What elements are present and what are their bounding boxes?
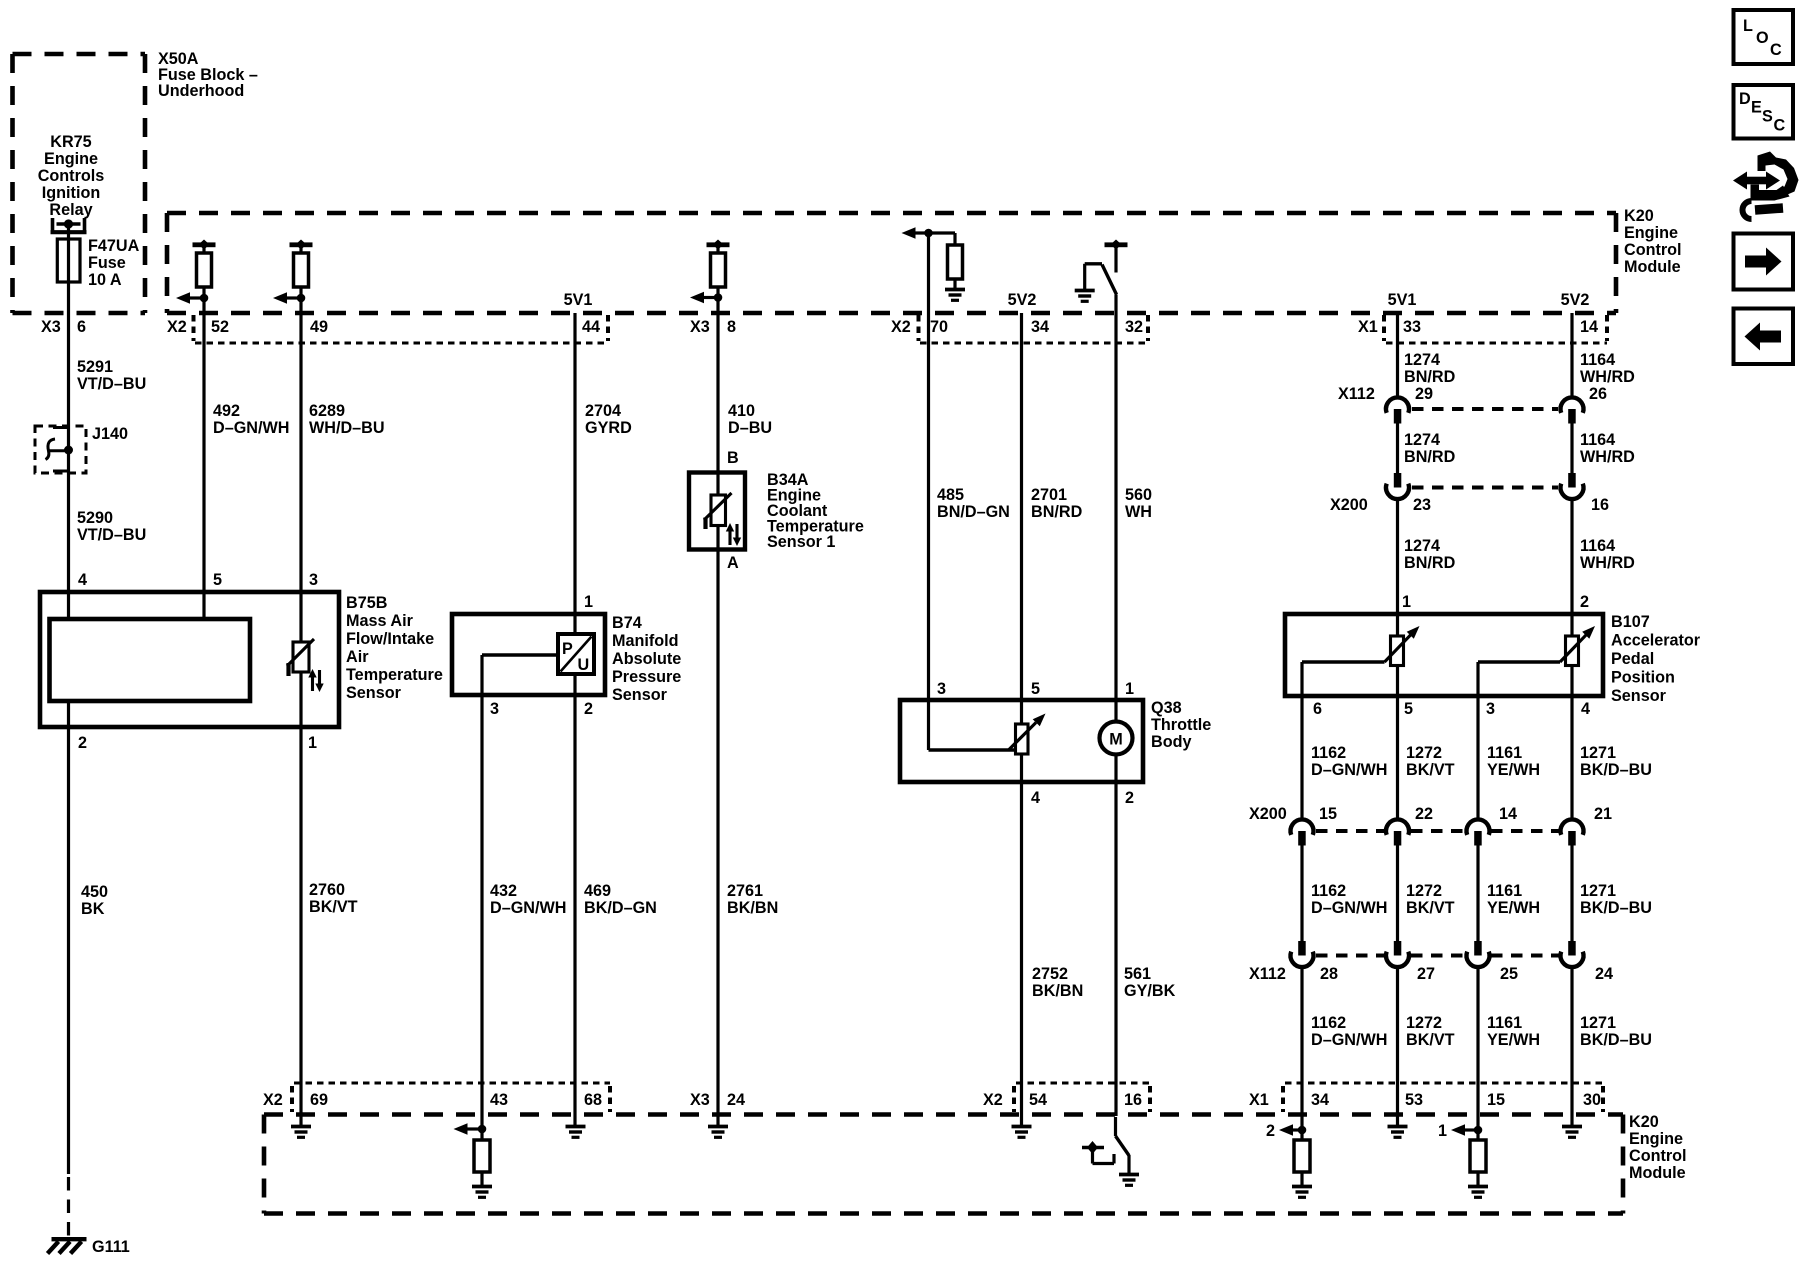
svg-text:Flow/Intake: Flow/Intake <box>346 630 434 648</box>
sensor B34A box <box>689 473 745 550</box>
svg-text:68: 68 <box>584 1091 602 1109</box>
svg-text:21: 21 <box>1594 805 1612 823</box>
svg-text:B74: B74 <box>612 614 642 632</box>
svg-text:Engine: Engine <box>44 150 98 168</box>
B107 potentiometer 1 <box>1391 636 1404 666</box>
svg-text:1162: 1162 <box>1311 744 1346 762</box>
label X50A Fuse Block Underhood <box>158 50 258 100</box>
svg-text:469: 469 <box>584 882 611 900</box>
svg-text:5290: 5290 <box>77 509 113 527</box>
svg-text:Sensor: Sensor <box>346 684 402 702</box>
svg-text:1: 1 <box>308 734 317 752</box>
label K20 Engine Control Module bottom <box>1629 1113 1687 1182</box>
svg-text:33: 33 <box>1403 318 1421 336</box>
svg-text:70: 70 <box>930 318 948 336</box>
icon LOC box <box>1734 10 1794 64</box>
label B107 Accelerator Pedal Position Sensor <box>1611 613 1701 705</box>
svg-text:6: 6 <box>77 318 86 336</box>
svg-text:1: 1 <box>1402 593 1411 611</box>
svg-text:1161: 1161 <box>1487 744 1522 762</box>
ECM pulldown at pin 70: arrow, resistor, ground <box>902 227 966 300</box>
svg-text:Absolute: Absolute <box>612 650 681 668</box>
svg-text:D–GN/WH: D–GN/WH <box>1311 761 1387 779</box>
svg-text:Position: Position <box>1611 669 1675 687</box>
svg-text:F47UA: F47UA <box>88 237 140 255</box>
B75B inner element box <box>50 619 251 701</box>
svg-text:Pedal: Pedal <box>1611 650 1654 668</box>
svg-text:1272: 1272 <box>1406 882 1442 900</box>
svg-text:BK/VT: BK/VT <box>1406 1031 1455 1049</box>
svg-text:53: 53 <box>1405 1091 1423 1109</box>
svg-text:2760: 2760 <box>309 881 345 899</box>
svg-text:5V2: 5V2 <box>1008 291 1037 309</box>
svg-text:YE/WH: YE/WH <box>1487 761 1540 779</box>
svg-text:Underhood: Underhood <box>158 82 244 100</box>
wire 1162 D-GN/WH (B107 pin 6 to pin 34) <box>1302 662 1385 1140</box>
svg-text:B107: B107 <box>1611 613 1650 631</box>
svg-text:2: 2 <box>1125 789 1134 807</box>
ECM switch at pin 32 with B+ marker <box>1075 240 1128 302</box>
connector strip X2 bottom-left (pins 69 43 68) <box>292 1083 610 1112</box>
svg-text:4: 4 <box>78 571 87 589</box>
sensor B74 box <box>452 614 605 695</box>
svg-text:D–GN/WH: D–GN/WH <box>490 899 566 917</box>
label Q38 Throttle Body <box>1151 699 1211 751</box>
svg-text:2: 2 <box>1580 593 1589 611</box>
svg-text:BN/RD: BN/RD <box>1031 503 1083 521</box>
svg-text:X200: X200 <box>1249 805 1287 823</box>
svg-text:BK/VT: BK/VT <box>1406 899 1455 917</box>
wire 2701 BN/RD (pin 34 to Q38 pin 5) <box>1020 313 1023 724</box>
svg-text:3: 3 <box>937 680 946 698</box>
svg-text:BK: BK <box>81 900 105 918</box>
wire 1164 WH/RD (pin 14 to B107 pin 2) <box>1570 313 1573 636</box>
svg-text:Engine: Engine <box>1629 1130 1683 1148</box>
svg-text:GY/BK: GY/BK <box>1124 982 1176 1000</box>
svg-text:BK/D–BU: BK/D–BU <box>1580 1031 1652 1049</box>
svg-text:34: 34 <box>1031 318 1049 336</box>
svg-text:Sensor 1: Sensor 1 <box>767 533 835 551</box>
svg-text:561: 561 <box>1124 965 1151 983</box>
svg-text:5291: 5291 <box>77 358 113 376</box>
svg-text:K20: K20 <box>1624 207 1654 225</box>
svg-text:49: 49 <box>310 318 328 336</box>
svg-text:D–GN/WH: D–GN/WH <box>213 419 289 437</box>
svg-text:E: E <box>1751 99 1762 117</box>
svg-text:3: 3 <box>1486 700 1495 718</box>
svg-text:Module: Module <box>1629 1164 1686 1182</box>
wire 6289 WH/D-BU (pin 49 to B75B pin 3) <box>299 313 302 642</box>
wire B74 pin 3 internal <box>482 653 558 657</box>
wire 432 D-GN/WH (B74 pin 3 to pin 43) <box>480 655 483 1140</box>
svg-text:C: C <box>1774 117 1786 135</box>
svg-text:1162: 1162 <box>1311 882 1346 900</box>
connector strip X1 bottom-right (pins 34 53 15 30) <box>1283 1083 1603 1112</box>
ECM switch at pin 16 with B+ contact <box>1082 1117 1139 1185</box>
svg-text:410: 410 <box>728 402 755 420</box>
svg-text:22: 22 <box>1415 805 1433 823</box>
svg-text:BK/D–GN: BK/D–GN <box>584 899 657 917</box>
B34A thermistor <box>704 493 737 545</box>
svg-text:1271: 1271 <box>1580 744 1616 762</box>
sensor B75B box <box>40 592 339 727</box>
svg-text:D–GN/WH: D–GN/WH <box>1311 899 1387 917</box>
ECM ground at pin 34: digit 2 arrow, resistor, ground <box>1266 1122 1312 1197</box>
svg-text:YE/WH: YE/WH <box>1487 1031 1540 1049</box>
inline connector X112 row pins 28/27/25/24 <box>1291 941 1584 967</box>
svg-text:X3: X3 <box>41 318 61 336</box>
svg-text:14: 14 <box>1580 318 1598 336</box>
svg-text:A: A <box>727 554 739 572</box>
svg-text:1272: 1272 <box>1406 1014 1442 1032</box>
svg-text:8: 8 <box>727 318 736 336</box>
svg-text:J140: J140 <box>92 425 128 443</box>
wire 469 BK/D-GN (B74 pin 2 to pin 68) <box>573 674 576 1127</box>
svg-text:B75B: B75B <box>346 594 387 612</box>
svg-text:Control: Control <box>1624 241 1682 259</box>
svg-text:32: 32 <box>1125 318 1143 336</box>
ECM pullup at pin 52: B+ marker, resistor R, arrow <box>176 240 216 314</box>
svg-text:VT/D–BU: VT/D–BU <box>77 375 146 393</box>
svg-text:1161: 1161 <box>1487 1014 1522 1032</box>
svg-text:25: 25 <box>1500 965 1518 983</box>
ECM ground at pin 69 <box>291 1127 311 1138</box>
svg-text:L: L <box>1743 17 1753 35</box>
ECM ground at pin 54 <box>1012 1127 1032 1138</box>
svg-text:B: B <box>727 449 739 467</box>
svg-text:52: 52 <box>211 318 229 336</box>
svg-text:O: O <box>1756 29 1769 47</box>
svg-text:1271: 1271 <box>1580 1014 1616 1032</box>
inline connector X200 row pins 15/22/14/21 <box>1291 819 1584 845</box>
svg-text:WH: WH <box>1125 503 1152 521</box>
connector strip X2 top-middle (pins 70 34 32) <box>919 315 1149 343</box>
svg-text:5V1: 5V1 <box>564 291 593 309</box>
svg-text:5V2: 5V2 <box>1561 291 1590 309</box>
icon forward arrow box <box>1734 234 1794 290</box>
svg-text:3: 3 <box>490 700 499 718</box>
relay KR75 contact <box>51 218 87 234</box>
svg-text:WH/RD: WH/RD <box>1580 368 1635 386</box>
wire 1272 BK/VT (B107 pin 5 to pin 53) <box>1396 666 1399 1127</box>
svg-text:WH/RD: WH/RD <box>1580 554 1635 572</box>
svg-text:2701: 2701 <box>1031 486 1067 504</box>
svg-text:Q38: Q38 <box>1151 699 1182 717</box>
svg-text:X1: X1 <box>1358 318 1378 336</box>
svg-text:Throttle: Throttle <box>1151 716 1211 734</box>
svg-text:X3: X3 <box>690 318 710 336</box>
svg-text:X3: X3 <box>690 1091 710 1109</box>
svg-text:VT/D–BU: VT/D–BU <box>77 526 146 544</box>
svg-text:Manifold: Manifold <box>612 632 679 650</box>
svg-text:BK/VT: BK/VT <box>1406 761 1455 779</box>
wire 560 WH (pin 32 to Q38 pin 1 motor) <box>1114 295 1117 722</box>
svg-text:Mass Air: Mass Air <box>346 612 414 630</box>
svg-text:485: 485 <box>937 486 964 504</box>
wire 485 BN/D-GN (pin 70 to Q38 pin 3) <box>927 233 930 750</box>
wire 5291/5290 VT/D-BU circuit (relay to B75B pin 4) <box>67 224 70 619</box>
svg-text:X2: X2 <box>891 318 911 336</box>
svg-text:5V1: 5V1 <box>1388 291 1417 309</box>
ECM ground at pin 15: digit 1 arrow, resistor, ground <box>1438 1122 1488 1197</box>
svg-text:1: 1 <box>1125 680 1134 698</box>
ECM pullup at pin 8 (X3) <box>690 240 730 314</box>
splice J140 symbol <box>53 426 69 429</box>
fuse F47UA <box>57 239 80 282</box>
svg-text:6: 6 <box>1313 700 1322 718</box>
ECM ground at pin 30 <box>1562 1127 1582 1138</box>
svg-text:Fuse: Fuse <box>88 254 126 272</box>
svg-text:5: 5 <box>1404 700 1413 718</box>
Q38 potentiometer <box>1016 724 1029 754</box>
sensor B107 box <box>1285 614 1603 696</box>
svg-text:GYRD: GYRD <box>585 419 632 437</box>
chassis ground G111 <box>48 1239 87 1253</box>
svg-text:2: 2 <box>78 734 87 752</box>
svg-text:34: 34 <box>1311 1091 1329 1109</box>
connector strip X2 bottom-middle (pins 54 16) <box>1014 1083 1150 1112</box>
svg-text:23: 23 <box>1413 496 1431 514</box>
label K20 Engine Control Module top <box>1624 207 1682 276</box>
wire 450 BK (B75B pin 2 to G111) <box>67 701 70 1174</box>
Q38 motor M <box>1100 722 1133 755</box>
svg-text:X2: X2 <box>263 1091 283 1109</box>
svg-text:BN/RD: BN/RD <box>1404 448 1456 466</box>
inline connector X112 row pins 29/26 <box>1386 397 1583 423</box>
wire 2761 BK/BN (B34A pin A to pin 24) <box>716 526 719 1127</box>
svg-text:560: 560 <box>1125 486 1152 504</box>
svg-text:BN/RD: BN/RD <box>1404 368 1456 386</box>
ECM ground at pin 43: arrow, resistor, ground <box>454 1123 493 1197</box>
svg-text:2704: 2704 <box>585 402 621 420</box>
svg-text:WH/D–BU: WH/D–BU <box>309 419 385 437</box>
svg-text:24: 24 <box>727 1091 745 1109</box>
svg-text:X112: X112 <box>1338 385 1375 403</box>
svg-text:K20: K20 <box>1629 1113 1659 1131</box>
svg-text:54: 54 <box>1029 1091 1047 1109</box>
svg-text:Temperature: Temperature <box>346 666 443 684</box>
wire 2752 BK/BN (Q38 pin 4 to pin 54) <box>1020 754 1023 1127</box>
icon DESC box <box>1734 85 1794 139</box>
svg-text:450: 450 <box>81 883 108 901</box>
svg-text:1162: 1162 <box>1311 1014 1346 1032</box>
svg-text:Controls: Controls <box>38 167 105 185</box>
svg-text:69: 69 <box>310 1091 328 1109</box>
svg-text:1272: 1272 <box>1406 744 1442 762</box>
svg-text:4: 4 <box>1581 700 1590 718</box>
svg-text:Sensor: Sensor <box>1611 687 1667 705</box>
wire 2760 BK/VT (B75B pin 1 to pin 69) <box>299 672 302 1127</box>
svg-text:D: D <box>1739 90 1751 108</box>
svg-text:1274: 1274 <box>1404 351 1440 369</box>
svg-text:Engine: Engine <box>1624 224 1678 242</box>
svg-text:4: 4 <box>1031 789 1040 807</box>
label B75B Mass Air Flow/Intake Air Temperature Sensor <box>346 594 443 702</box>
svg-text:1: 1 <box>1438 1122 1447 1140</box>
ECM ground at pin 68 <box>566 1127 586 1138</box>
svg-text:Module: Module <box>1624 258 1681 276</box>
svg-text:BN/RD: BN/RD <box>1404 554 1456 572</box>
svg-text:BK/BN: BK/BN <box>1032 982 1083 1000</box>
inline connector X200 row pins 23/16 <box>1386 473 1583 499</box>
svg-text:10 A: 10 A <box>88 271 122 289</box>
wire 492 D-GN/WH (pin 52 to B75B pin 5) <box>202 313 205 619</box>
svg-text:D–BU: D–BU <box>728 419 772 437</box>
svg-text:Body: Body <box>1151 733 1191 751</box>
svg-text:BN/D–GN: BN/D–GN <box>937 503 1010 521</box>
svg-text:YE/WH: YE/WH <box>1487 899 1540 917</box>
svg-text:44: 44 <box>582 318 600 336</box>
svg-text:5: 5 <box>213 571 222 589</box>
svg-text:D–GN/WH: D–GN/WH <box>1311 1031 1387 1049</box>
connector strip X1 top-right (pins 33 14) <box>1384 315 1607 343</box>
svg-text:Ignition: Ignition <box>42 184 100 202</box>
svg-text:X1: X1 <box>1249 1091 1269 1109</box>
svg-text:2761: 2761 <box>727 882 763 900</box>
svg-text:1274: 1274 <box>1404 431 1440 449</box>
throttle body Q38 box <box>900 700 1143 782</box>
svg-text:432: 432 <box>490 882 517 900</box>
svg-text:3: 3 <box>309 571 318 589</box>
svg-text:492: 492 <box>213 402 240 420</box>
svg-text:2: 2 <box>584 700 593 718</box>
svg-text:X200: X200 <box>1330 496 1368 514</box>
svg-text:27: 27 <box>1417 965 1435 983</box>
ECM K20 top dashed outline <box>167 213 1616 313</box>
icon vehicle with arrows and wrench <box>1733 152 1799 220</box>
svg-text:1164: 1164 <box>1580 431 1615 449</box>
svg-text:X2: X2 <box>167 318 187 336</box>
svg-text:P: P <box>562 640 573 658</box>
svg-text:1: 1 <box>584 593 593 611</box>
svg-text:BK/VT: BK/VT <box>309 898 358 916</box>
svg-text:2752: 2752 <box>1032 965 1068 983</box>
svg-text:1161: 1161 <box>1487 882 1522 900</box>
icon back arrow box <box>1734 309 1794 365</box>
label B74 Manifold Absolute Pressure Sensor <box>612 614 681 704</box>
svg-text:Air: Air <box>346 648 369 666</box>
wire 1161 YE/WH (B107 pin 3 to pin 15) <box>1478 662 1560 1140</box>
svg-text:X2: X2 <box>983 1091 1003 1109</box>
wire 410 D-BU (pin 8 to B34A pin B) <box>716 313 719 495</box>
svg-text:28: 28 <box>1320 965 1338 983</box>
wire 1271 BK/D-BU (B107 pin 4 to pin 30) <box>1570 666 1573 1127</box>
svg-text:24: 24 <box>1595 965 1613 983</box>
ECM ground at pin 24 <box>708 1127 728 1138</box>
svg-text:Sensor: Sensor <box>612 686 668 704</box>
svg-text:KR75: KR75 <box>50 133 91 151</box>
svg-text:5: 5 <box>1031 680 1040 698</box>
svg-text:C: C <box>1770 41 1782 59</box>
label F47UA Fuse 10 A <box>88 237 140 289</box>
svg-text:Control: Control <box>1629 1147 1687 1165</box>
svg-text:WH/RD: WH/RD <box>1580 448 1635 466</box>
svg-text:BK/D–BU: BK/D–BU <box>1580 899 1652 917</box>
fuse block X50A dashed outline <box>13 54 146 313</box>
svg-text:1164: 1164 <box>1580 537 1615 555</box>
svg-text:U: U <box>578 656 590 674</box>
svg-text:1271: 1271 <box>1580 882 1616 900</box>
svg-text:G111: G111 <box>92 1238 130 1256</box>
connector strip X2 top-left (pins 52 49 44) <box>194 315 609 343</box>
svg-text:Accelerator: Accelerator <box>1611 632 1701 650</box>
svg-text:43: 43 <box>490 1091 508 1109</box>
label B34A Engine Coolant Temperature Sensor 1 <box>767 471 864 551</box>
wire 561 GY/BK (Q38 pin 2 to pin 16) <box>1114 755 1117 1117</box>
B74 pressure element P/U <box>558 634 594 674</box>
splice J140 dashed box <box>35 426 86 473</box>
svg-text:1164: 1164 <box>1580 351 1615 369</box>
svg-text:X112: X112 <box>1249 965 1286 983</box>
svg-text:BK/D–BU: BK/D–BU <box>1580 761 1652 779</box>
ECM pullup at pin 49 <box>273 240 313 314</box>
svg-text:Pressure: Pressure <box>612 668 681 686</box>
svg-text:S: S <box>1762 108 1773 126</box>
wire 1274 BN/RD (pin 33 to B107 pin 1) <box>1396 313 1399 636</box>
svg-text:1274: 1274 <box>1404 537 1440 555</box>
svg-text:BK/BN: BK/BN <box>727 899 778 917</box>
svg-text:2: 2 <box>1266 1122 1275 1140</box>
svg-text:16: 16 <box>1124 1091 1142 1109</box>
svg-text:30: 30 <box>1583 1091 1601 1109</box>
svg-text:Relay: Relay <box>49 201 92 219</box>
B75B thermistor <box>287 639 320 691</box>
wire 2704 GYRD (pin 44 to B74 pin 1) <box>573 313 576 634</box>
svg-text:M: M <box>1109 731 1122 749</box>
B107 potentiometer 2 <box>1566 636 1579 666</box>
svg-text:14: 14 <box>1499 805 1517 823</box>
label KR75 Engine Controls Ignition Relay <box>38 133 105 219</box>
svg-text:6289: 6289 <box>309 402 345 420</box>
svg-text:29: 29 <box>1415 385 1433 403</box>
svg-text:15: 15 <box>1319 805 1337 823</box>
ECM ground at pin 53 <box>1388 1127 1408 1138</box>
svg-text:26: 26 <box>1589 385 1607 403</box>
svg-text:16: 16 <box>1591 496 1609 514</box>
ECM K20 bottom dashed outline <box>264 1115 1623 1214</box>
svg-text:15: 15 <box>1487 1091 1505 1109</box>
